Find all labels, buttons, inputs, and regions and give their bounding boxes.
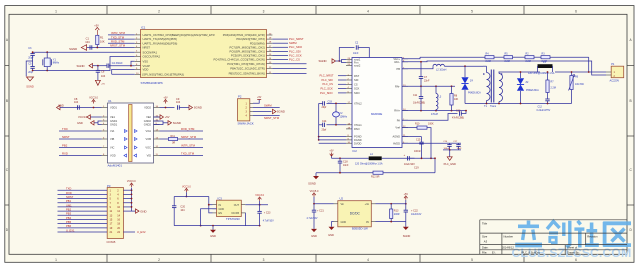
crystal Y2 12MHz circuit [327, 102, 347, 104]
svg-text:EN: EN [219, 212, 223, 215]
svg-text:IN: IN [219, 204, 222, 207]
net label PLC_NRST at IC2 [338, 75, 346, 77]
capacitor C14 20pF [322, 123, 324, 127]
svg-text:PB5(T)I2C_SDA[TIM1_BKIN]: PB5(T)I2C_SDA[TIM1_BKIN] [229, 72, 265, 76]
wire AGND row [402, 136, 422, 138]
net label RXD_STM at VOA [160, 130, 204, 132]
ground GND at P3 [132, 210, 136, 212]
svg-text:3: 3 [263, 10, 265, 14]
svg-text:PC4(TIM1_CH4/CLK_CCO)[TIM1_CH2: PC4(TIM1_CH4/CLK_CCO)[TIM1_CH2N] [213, 58, 264, 62]
connector P1 AC220V body [611, 66, 624, 78]
wire VDD1 [60, 107, 102, 109]
wire IC3 FB down [244, 213, 246, 226]
svg-text:NRST_STM: NRST_STM [110, 44, 126, 48]
net label NRST [59, 138, 102, 140]
svg-text:10uF/10V: 10uF/10V [411, 213, 422, 216]
svg-text:C1: C1 [86, 37, 90, 41]
ground GND at GND1 [98, 121, 102, 125]
wire U2 0V rail [376, 221, 406, 223]
wire IC3 IN and EN tie [209, 197, 213, 213]
svg-text:VOA: VOA [146, 129, 152, 133]
svg-text:20pf: 20pf [322, 129, 327, 132]
capacitor C16 10uF electrolytic [407, 156, 409, 160]
svg-text:0V: 0V [366, 221, 369, 224]
frame zone ticks [106, 6, 108, 15]
svg-text:RAi-: RAi- [395, 84, 400, 88]
svg-text:Vref: Vref [395, 126, 400, 130]
svg-text:DVDD: DVDD [354, 141, 361, 145]
svg-text:+ C21: + C21 [317, 210, 324, 213]
svg-text:L2 100uH: L2 100uH [436, 69, 447, 72]
svg-text:5: 5 [471, 10, 473, 14]
wire xout pins [339, 60, 346, 62]
IC1 right pin stubs [267, 34, 273, 36]
IC U2 B0505D DCDC body [338, 201, 372, 227]
svg-text:AC220V: AC220V [610, 78, 620, 82]
resistor R11 0R [160, 138, 169, 140]
resistor R10 100K on Vref [402, 127, 417, 129]
svg-text:PD2(AIN3)[TIM2_CH3]: PD2(AIN3)[TIM2_CH3] [236, 37, 264, 41]
svg-text:100nF: 100nF [414, 150, 421, 153]
svg-text:PLC_CS: PLC_CS [289, 58, 300, 62]
power port SGND VCAP row [89, 64, 93, 68]
svg-text:GND: GND [219, 208, 225, 211]
svg-text:RXD: RXD [66, 191, 72, 195]
ground GND below C21 [311, 229, 317, 232]
svg-text:VID: VID [147, 154, 151, 158]
svg-text:PLC_SCK: PLC_SCK [321, 87, 333, 91]
svg-text:0R: 0R [172, 141, 175, 144]
top rail with startup resistors [420, 56, 485, 58]
svg-text:VE2: VE2 [146, 115, 151, 119]
svg-text:RXD_STM: RXD_STM [181, 127, 195, 131]
capacitor C2 10nF loop [339, 48, 354, 62]
svg-text:SGND: SGND [403, 234, 411, 238]
svg-text:PC3(TIM1_CH3)[TIM1_CH1N]: PC3(TIM1_CH3)[TIM1_CH1N] [227, 62, 265, 66]
svg-text:PB5: PB5 [66, 220, 72, 224]
svg-text:CS: CS [354, 82, 358, 86]
svg-text:VDD1: VDD1 [110, 106, 117, 110]
svg-text:VDD: VDD [143, 68, 149, 72]
svg-text:PB4(T)I2C_SCL[ADC_ETR]: PB4(T)I2C_SCL[ADC_ETR] [230, 67, 264, 71]
svg-text:SDO: SDO [354, 91, 360, 95]
transformer T1 core [490, 70, 492, 103]
svg-text:8MHz: 8MHz [53, 62, 60, 65]
svg-text:UM1: UM1 [66, 203, 72, 207]
svg-text:C6: C6 [101, 69, 105, 73]
ground SGND at U2 [405, 222, 407, 227]
svg-text:5: 5 [471, 258, 473, 262]
capacitor C22 10uF [405, 204, 407, 210]
svg-text:+ C22: + C22 [411, 210, 418, 213]
IC2 right pin stubs [402, 58, 408, 60]
svg-text:OSCOUT/PA2: OSCOUT/PA2 [143, 55, 161, 59]
wire L4 rail [331, 156, 333, 158]
power +5V at VE2 [154, 116, 161, 118]
svg-text:GND2: GND2 [144, 123, 152, 127]
svg-text:GND: GND [140, 209, 146, 213]
svg-text:SDI: SDI [354, 78, 359, 82]
svg-text:Drawn By:: Drawn By: [567, 251, 580, 255]
ground SGND crystal [27, 77, 34, 81]
svg-text:10K: 10K [100, 40, 105, 44]
svg-text:4: 4 [367, 10, 369, 14]
IC3 pin stubs [213, 204, 217, 206]
IC1 right net wires rows [272, 38, 288, 40]
ground SGND at R12 [315, 173, 317, 176]
IC1 left pin stubs [135, 34, 141, 36]
resistor R8 10K [451, 86, 453, 93]
svg-text:XTAL1: XTAL1 [354, 123, 362, 127]
svg-text:PLC_GND: PLC_GND [444, 162, 456, 166]
inductor L2 100uH [402, 68, 430, 70]
IC IC3 TPS76333 body [217, 200, 242, 216]
svg-text:100K: 100K [428, 123, 434, 126]
svg-text:PB4: PB4 [66, 216, 72, 220]
svg-text:VE1: VE1 [110, 115, 115, 119]
svg-text:TXD: TXD [62, 127, 68, 131]
svg-text:\PLC_8.SchDoc: \PLC_8.SchDoc [521, 251, 541, 255]
svg-text:RAi+: RAi+ [394, 109, 400, 113]
svg-text:PC6(SPI_MOSI)[TIM1_CH1]: PC6(SPI_MOSI)[TIM1_CH1] [230, 50, 265, 54]
power +5V at U1 VDD2 [160, 107, 175, 109]
svg-text:Trans: Trans [490, 105, 497, 108]
svg-text:NRST: NRST [66, 195, 74, 199]
resistor R2 2.2M [525, 56, 534, 59]
svg-text:VCC3.0: VCC3.0 [89, 97, 98, 100]
wire rail1 to P1 pin1 [589, 57, 606, 72]
svg-text:20pf: 20pf [28, 71, 33, 74]
wire VCAP row [93, 65, 108, 67]
svg-text:RXD: RXD [62, 152, 68, 156]
IC IC1 STM8S103F3P6 body [141, 30, 267, 78]
svg-text:2.2M: 2.2M [551, 86, 556, 89]
net label TXD_STM at VID [160, 155, 204, 157]
resistor R12 0R [373, 171, 383, 174]
svg-text:NC/FB: NC/FB [232, 212, 240, 215]
svg-text:U_EX2: U_EX2 [137, 230, 146, 234]
svg-text:GND: GND [210, 234, 216, 238]
power VCC3.0 at VE1 [90, 116, 102, 118]
power +5V at P2 pin1 [253, 100, 259, 104]
svg-text:IC2: IC2 [353, 149, 358, 153]
svg-text:NRST: NRST [62, 135, 70, 139]
power SGND at GND2 [154, 121, 164, 125]
capacitor C3 20pF [32, 52, 34, 53]
capacitor C9 104 [177, 105, 179, 109]
resistor R1 10K [96, 35, 99, 44]
svg-text:VSS: VSS [143, 59, 149, 63]
svg-text:1: 1 [55, 10, 57, 14]
svg-text:XTAL2: XTAL2 [354, 102, 362, 106]
svg-text:Number: Number [504, 234, 514, 238]
watermark LCSC big characters [515, 221, 631, 248]
svg-text:2: 2 [158, 10, 160, 14]
net label SWIM at P2 [253, 106, 280, 108]
power port PLC_GND [447, 157, 452, 161]
svg-text:PLC_SDO: PLC_SDO [320, 91, 333, 95]
svg-text:+5V: +5V [165, 115, 170, 119]
capacitor C17 10nF [458, 143, 460, 144]
svg-text:4.7uF/10V: 4.7uF/10V [263, 219, 274, 222]
svg-text:PLC_CS: PLC_CS [323, 82, 334, 86]
power +5V at U2 out [405, 200, 407, 204]
P2 pin wires [250, 102, 253, 104]
capacitor C20 104 [173, 197, 175, 206]
wire SPI_NSS row [112, 73, 135, 75]
TVS Z2 P6KE6.8CA [520, 72, 522, 78]
svg-text:PC5(SPI_SCK)[TIM2_CH1]: PC5(SPI_SCK)[TIM2_CH1] [231, 54, 265, 58]
svg-text:GND1: GND1 [110, 119, 118, 123]
capacitor C12 0.22uF [547, 93, 549, 100]
svg-text:SGND: SGND [69, 47, 77, 51]
U1 buffer arrows [125, 130, 128, 133]
svg-text:VCAP: VCAP [143, 64, 151, 68]
svg-text:[SPI_NSS]/TIM2_CH1(ETR)(PA3): [SPI_NSS]/TIM2_CH1(ETR)(PA3) [143, 72, 184, 76]
wire crystal ground rail [318, 103, 320, 139]
capacitor C6 104 [97, 65, 99, 67]
svg-text:GND: GND [341, 221, 347, 224]
U2 pin stubs [334, 203, 338, 205]
svg-text:VCC3.0: VCC3.0 [78, 115, 88, 119]
svg-text:+Vo: +Vo [365, 203, 370, 206]
svg-text:PB6: PB6 [66, 224, 72, 228]
net label NRST_STM at P2 [253, 115, 280, 117]
capacitor C18 10nF [339, 158, 341, 161]
svg-text:120 Ohm@100Mhz 1.5A: 120 Ohm@100Mhz 1.5A [528, 72, 555, 75]
svg-text:10nF: 10nF [343, 164, 349, 167]
power VCC3.0 at P3 [131, 188, 133, 191]
svg-text:OUT: OUT [234, 204, 240, 207]
resistor R6 10ohm fusible [571, 72, 573, 76]
net label RXD_STM [108, 42, 135, 44]
svg-text:File:: File: [482, 251, 487, 255]
svg-text:VAC-: VAC- [394, 60, 400, 64]
svg-text:12MHz: 12MHz [340, 116, 348, 119]
wire OSC bottom [33, 57, 135, 71]
svg-text:U2: U2 [340, 197, 344, 201]
svg-text:+5V: +5V [257, 97, 262, 99]
wire VAC+ to top rail [402, 57, 420, 59]
svg-text:2: 2 [158, 258, 160, 262]
svg-text:SGND: SGND [319, 59, 327, 63]
svg-text:GND1: GND1 [110, 123, 118, 127]
title block frame [480, 219, 627, 221]
svg-text:10K: 10K [454, 98, 459, 101]
wire IC2 ground bus [319, 136, 346, 138]
bottom rail transformer section [465, 103, 572, 105]
wire L1 bypass [537, 66, 539, 72]
U1 isolation barrier [129, 105, 132, 162]
svg-text:SGND: SGND [173, 121, 181, 125]
svg-text:C11: C11 [413, 94, 418, 97]
svg-text:SGND: SGND [77, 64, 85, 68]
svg-text:IC3: IC3 [218, 196, 223, 200]
svg-text:SGND: SGND [277, 110, 285, 114]
svg-text:VIB: VIB [110, 137, 114, 141]
wire VSS join [131, 61, 135, 65]
svg-text:VCC5.0: VCC5.0 [310, 190, 319, 193]
net label PLC_SDI at IC2 [338, 79, 346, 81]
TVS Z4 P6KE6.8CA [464, 66, 466, 77]
wire PB junction at Z4 [464, 65, 466, 67]
svg-text:NRST_STM: NRST_STM [264, 116, 280, 120]
resistor R13 200R [390, 204, 392, 209]
svg-text:470uH: 470uH [431, 113, 438, 116]
ground GND IC3 [212, 226, 214, 230]
svg-text:+: + [404, 153, 406, 157]
svg-text:Vin: Vin [341, 203, 345, 206]
svg-text:PB: PB [397, 67, 401, 71]
capacitor C15 100nF [419, 141, 423, 143]
IC IC2 MI2060E body [352, 58, 402, 148]
svg-text:10nF(CBB): 10nF(CBB) [413, 101, 425, 104]
capacitor C5 20pF [32, 61, 34, 67]
svg-text:PB1: PB1 [66, 199, 72, 203]
svg-text:P6KE6.8CA: P6KE6.8CA [468, 92, 481, 95]
capacitor C8 104 [77, 105, 79, 109]
net label INTR_STM [108, 34, 135, 36]
svg-text:VIA: VIA [110, 129, 114, 133]
svg-text:10uF/10V: 10uF/10V [404, 163, 415, 166]
svg-text:P2: P2 [238, 95, 242, 99]
svg-text:C15: C15 [416, 139, 421, 142]
power VCC3.0 at IC3 out [259, 201, 261, 205]
wire VDD row [112, 69, 135, 74]
svg-text:SOCIN/PA1: SOCIN/PA1 [143, 50, 158, 54]
svg-text:UART1_RX(AIN6)(D6)(PD6): UART1_RX(AIN6)(D6)(PD6) [143, 41, 178, 45]
wire crystal caps mid to ground [26, 61, 32, 76]
svg-text:PLC_NRST: PLC_NRST [320, 74, 334, 78]
svg-text:SGND: SGND [308, 182, 316, 186]
net label PLC_SDO at IC2 [338, 92, 346, 94]
svg-text:104: 104 [85, 40, 90, 44]
svg-text:SWIM-JACK: SWIM-JACK [238, 121, 254, 125]
capacitor C19 20pF [322, 101, 324, 105]
svg-text:20pF: 20pF [28, 56, 34, 59]
svg-text:U_EX1: U_EX1 [66, 228, 75, 232]
svg-text:4.7uF/16V: 4.7uF/16V [307, 217, 318, 220]
wire IC3 GND pin down [201, 209, 217, 226]
net label INTR_STM at VOC [160, 147, 204, 149]
svg-text:TPS76333: TPS76333 [226, 217, 240, 221]
svg-text:PA: PA [397, 118, 401, 122]
inductor L1 ferrite [538, 64, 553, 68]
net label PB2 [59, 147, 102, 149]
svg-text:AGND: AGND [393, 135, 401, 139]
power port SGND at VDD2 [179, 107, 189, 109]
svg-text:104: 104 [74, 101, 79, 104]
svg-text:U1: U1 [108, 99, 112, 103]
connector P2 SWIM-JACK body [238, 99, 250, 121]
capacitor C7 22nF [420, 62, 422, 77]
svg-text:VCC3.0: VCC3.0 [182, 186, 191, 189]
svg-text:VDD2: VDD2 [144, 106, 151, 110]
capacitor C21 4.7uF [313, 204, 315, 210]
svg-text:104: 104 [101, 75, 106, 78]
power +5V port at L4 rail [330, 153, 334, 157]
svg-text:R13: R13 [394, 210, 399, 213]
capacitor C1 104 [89, 45, 91, 49]
wire secondary top [498, 71, 500, 74]
svg-text:R12 0R: R12 0R [371, 176, 380, 179]
connector P3 CON B body [107, 188, 123, 239]
svg-text:Date:: Date: [482, 246, 489, 250]
wire VAC- rail2 [402, 61, 606, 75]
svg-text:B: B [6, 99, 8, 103]
svg-text:DC/DC: DC/DC [350, 212, 361, 216]
svg-text:R1: R1 [100, 36, 104, 40]
svg-text:C19: C19 [414, 167, 419, 170]
svg-text:R11: R11 [171, 135, 176, 138]
svg-text:+5V: +5V [163, 97, 168, 100]
net label TXD [59, 130, 102, 132]
wire IC1 right lower rows [272, 63, 306, 65]
svg-text:NRST_STM: NRST_STM [181, 135, 197, 139]
svg-text:Sheet of: Sheet of [567, 246, 577, 250]
svg-text:CON.B: CON.B [107, 240, 116, 244]
svg-text:B: B [630, 99, 632, 103]
svg-text:104: 104 [180, 209, 185, 212]
svg-text:10nF: 10nF [353, 52, 359, 55]
svg-text:xout2: xout2 [354, 64, 361, 68]
net label NRST_STM [87, 47, 135, 49]
svg-text:PB2: PB2 [66, 208, 72, 212]
resistor R3 2.2M [541, 56, 550, 59]
svg-text:P3: P3 [107, 184, 111, 188]
svg-text:VCC3.0: VCC3.0 [255, 194, 264, 197]
svg-text:1: 1 [55, 258, 57, 262]
inductor L3 470uH [435, 86, 437, 93]
svg-text:6: 6 [575, 10, 577, 14]
svg-text:P1: P1 [611, 62, 615, 66]
svg-text:Revision: Revision [587, 234, 598, 238]
svg-text:SGND: SGND [26, 84, 34, 88]
net label PLC_CS at IC2 [338, 83, 346, 85]
svg-text:PB3: PB3 [66, 212, 72, 216]
svg-text:GND: GND [77, 121, 83, 125]
svg-text:2014/9/12: 2014/9/12 [502, 246, 514, 250]
svg-text:UART1_TX(AIN5)(D5)(PD5): UART1_TX(AIN5)(D5)(PD5) [143, 37, 178, 41]
wire RAi- row [402, 85, 455, 87]
svg-text:PLC_SDI: PLC_SDI [322, 78, 333, 82]
svg-text:120 Ohm@100Mhz 1.5A: 120 Ohm@100Mhz 1.5A [355, 162, 383, 165]
svg-text:4: 4 [367, 258, 369, 262]
svg-text:VIC: VIC [110, 146, 114, 150]
svg-text:200R: 200R [394, 213, 400, 216]
capacitor C14 100nF [446, 142, 461, 144]
svg-text:E:\: E:\ [492, 251, 496, 255]
power port SGND at NRST [81, 45, 86, 51]
capacitor C13 47nF [402, 114, 458, 121]
svg-text:C12: C12 [538, 106, 543, 109]
wire IC3 input rail [174, 196, 209, 198]
wire R12 row [316, 172, 373, 174]
net label U_EX2 at P3 [123, 231, 135, 233]
net label RXD [59, 155, 102, 157]
power VCC3.0 at VDD1 [93, 107, 95, 109]
wire IC3 out [245, 204, 268, 206]
svg-text:+ C23: + C23 [264, 212, 271, 215]
wire RAi+ row [402, 110, 466, 112]
IC2 left pin stubs [346, 59, 352, 61]
P3 left wires and net labels [58, 189, 108, 191]
capacitor C11 10nF [420, 86, 422, 96]
svg-text:PC7(SPI_MISO)[TIM1_CH2]: PC7(SPI_MISO)[TIM1_CH2] [230, 45, 265, 49]
svg-text:NRST: NRST [143, 46, 151, 50]
svg-text:C19: C19 [328, 101, 333, 104]
svg-text:+5V: +5V [101, 84, 105, 86]
